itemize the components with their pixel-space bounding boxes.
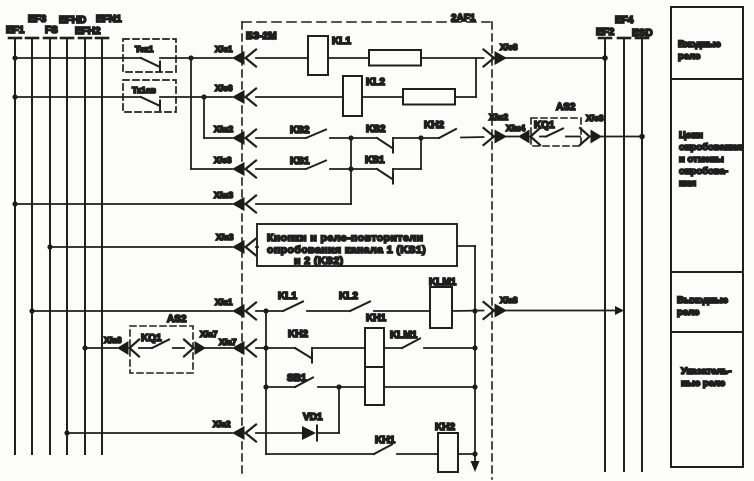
arrow continuation down bbox=[471, 454, 480, 472]
svg-text:X/с1: X/с1 bbox=[215, 44, 233, 54]
bus EF2 bbox=[596, 27, 615, 471]
svg-text:KQ1: KQ1 bbox=[534, 120, 555, 131]
wire row1 to connector bbox=[191, 57, 232, 59]
wire X/a7 to node x266 bbox=[256, 347, 295, 349]
svg-text:БЗ-2М: БЗ-2М bbox=[246, 31, 277, 42]
bus ESD bbox=[632, 28, 653, 471]
connector X/a7 (AS2 side) bbox=[184, 329, 218, 357]
contact KQ1 upper bbox=[534, 120, 580, 137]
junction EF1/row2 bbox=[12, 94, 17, 99]
junction EFHD/row10 bbox=[64, 430, 69, 435]
svg-text:ные реле: ные реле bbox=[681, 378, 725, 389]
wire to contact KS2 second bbox=[351, 137, 377, 139]
junction node x266 row7 bbox=[263, 308, 268, 313]
svg-text:KL1: KL1 bbox=[332, 36, 351, 47]
connector X/m3 bbox=[214, 190, 256, 213]
bus EF4 bbox=[615, 15, 634, 471]
svg-text:KLM1: KLM1 bbox=[429, 277, 457, 288]
wire R1 to connector X/c8 bbox=[421, 57, 484, 59]
wire row2 to connector bbox=[204, 96, 232, 98]
svg-text:X/а3: X/а3 bbox=[216, 232, 234, 242]
legend divider 2 bbox=[671, 271, 743, 273]
svg-text:KQ1: KQ1 bbox=[141, 333, 162, 344]
contact KS1 (second, with latch) bbox=[365, 155, 421, 184]
svg-text:Выходные: Выходные bbox=[677, 295, 728, 306]
wire X/c3 right to ESD bbox=[600, 136, 642, 138]
legend panel bbox=[671, 7, 743, 467]
svg-text:ния: ния bbox=[679, 178, 696, 189]
svg-text:Тск1: Тск1 bbox=[135, 44, 154, 54]
svg-text:KH2: KH2 bbox=[424, 120, 444, 131]
connector X/c8 bbox=[484, 42, 518, 67]
wire VD1 to x339 bbox=[317, 432, 339, 434]
relay coil KL2 bbox=[343, 76, 385, 116]
wire vertical x266 rows7-11 bbox=[265, 311, 267, 454]
wire X/m3 to x351 bbox=[256, 203, 351, 205]
svg-text:X/с3: X/с3 bbox=[214, 155, 232, 165]
junction node row2 x204 bbox=[201, 94, 206, 99]
diode VD1 bbox=[302, 412, 323, 441]
wire R2 to join vertical bbox=[455, 96, 476, 98]
block boundary 2AF1 dashed top bbox=[242, 13, 490, 24]
svg-text:AS2: AS2 bbox=[556, 102, 576, 113]
wire X/c6 to coil KL2 bbox=[256, 96, 343, 98]
wire block output to x475 bbox=[457, 245, 475, 247]
junction FS/row6 bbox=[47, 244, 52, 249]
contact KQ1 lower bbox=[139, 333, 184, 348]
svg-text:X/а7: X/а7 bbox=[219, 337, 237, 347]
svg-text:X/а8: X/а8 bbox=[500, 295, 518, 305]
connector X/a3 bbox=[216, 232, 256, 256]
relay coil KL1 bbox=[308, 36, 351, 75]
svg-text:VD1: VD1 bbox=[303, 412, 323, 423]
legend text output relays bbox=[677, 295, 728, 318]
legend text indicator relays bbox=[681, 366, 732, 389]
junction ESD/row3 bbox=[639, 134, 645, 140]
bus FS bbox=[44, 25, 58, 454]
wire KH2 to x475 bbox=[458, 453, 475, 455]
svg-text:опробования канала 1 (KS1): опробования канала 1 (KS1) bbox=[267, 244, 426, 256]
relay coil KLM1 bbox=[429, 277, 457, 328]
contact KL2 bbox=[339, 291, 430, 311]
junction node x421 row3 bbox=[418, 135, 423, 140]
relay coil KH1 (two sections) bbox=[365, 313, 386, 405]
svg-text:опробования: опробования bbox=[679, 142, 742, 153]
svg-text:KH1: KH1 bbox=[366, 313, 386, 324]
svg-text:X/а6: X/а6 bbox=[104, 335, 122, 345]
svg-text:KS1: KS1 bbox=[365, 155, 385, 166]
block AS2 lower (dashed box) bbox=[130, 314, 193, 373]
bus EF3 bbox=[26, 14, 47, 454]
connector X/c3 right bbox=[580, 113, 604, 145]
contact KLM1 bbox=[384, 330, 475, 348]
wire branch x339 down to diode row bbox=[338, 387, 340, 433]
svg-text:Входные: Входные bbox=[678, 39, 721, 50]
block boundary 2AF1 dashed vertical right bbox=[491, 22, 493, 479]
svg-text:KS2: KS2 bbox=[290, 125, 310, 136]
connector X/a1 bbox=[215, 297, 256, 320]
svg-text:и отмены: и отмены bbox=[679, 154, 724, 165]
svg-text:X/м3: X/м3 bbox=[214, 190, 233, 200]
connector X/c1 bbox=[215, 44, 256, 67]
svg-text:KLM1: KLM1 bbox=[390, 330, 418, 341]
connector X/m2 bbox=[214, 124, 256, 147]
svg-text:и 2 (KS2): и 2 (KS2) bbox=[294, 255, 344, 267]
junction node x351 row4 bbox=[348, 166, 353, 171]
contact SB1 bbox=[287, 373, 339, 387]
svg-text:Указатель-: Указатель- bbox=[681, 366, 732, 377]
junction EF1/row5 bbox=[12, 201, 17, 206]
svg-text:EF2: EF2 bbox=[596, 27, 615, 38]
connector X/m2 right bbox=[484, 112, 509, 145]
wire X/a7 link bbox=[204, 347, 232, 349]
svg-text:KS1: KS1 bbox=[290, 156, 310, 167]
wire row X/a1 from EF3 bbox=[32, 310, 232, 312]
wire SB1 node to coil KH1 lower bbox=[339, 386, 365, 388]
junction x475 row8 bbox=[472, 345, 477, 350]
wire row X/a6 from EFH2 bbox=[85, 347, 117, 349]
svg-text:реле: реле bbox=[678, 51, 700, 62]
svg-text:AS2: AS2 bbox=[167, 314, 187, 325]
wire branch x421 KS1 step up to KH2 node bbox=[420, 138, 422, 169]
block boundary BZ-2M dashed vertical bbox=[242, 22, 277, 473]
bus EFHD bbox=[59, 15, 86, 454]
wire row X/a3 from FS bbox=[50, 246, 232, 248]
svg-text:X/а2: X/а2 bbox=[213, 419, 231, 429]
relay coil KH2 bbox=[435, 422, 458, 472]
contact KH2 (with latch) bbox=[288, 329, 365, 363]
junction x475 row7 bbox=[472, 308, 477, 313]
junction x475 row11 bbox=[472, 451, 477, 456]
svg-text:X/м2: X/м2 bbox=[489, 112, 508, 122]
contact KH2 bbox=[421, 120, 484, 138]
wire branch x204 down to X/m2 row bbox=[203, 97, 205, 138]
connector X/a7 (BZ-2M side) bbox=[219, 337, 256, 357]
contact KL1 bbox=[278, 291, 350, 311]
connector X/m4 bbox=[506, 123, 540, 145]
svg-text:EF1: EF1 bbox=[6, 25, 25, 36]
svg-text:KL2: KL2 bbox=[339, 291, 358, 302]
svg-text:X/м4: X/м4 bbox=[506, 123, 525, 133]
svg-text:KH2: KH2 bbox=[435, 422, 455, 433]
svg-text:KL2: KL2 bbox=[366, 77, 385, 88]
svg-text:реле: реле bbox=[677, 307, 699, 318]
junction x266 row8 bbox=[263, 345, 268, 350]
contact KH1 (bottom) bbox=[374, 435, 438, 454]
wire KH1 lower to x475 bbox=[384, 386, 475, 388]
junction EF1/row1 bbox=[12, 55, 17, 60]
wire to contact KS1 second bbox=[351, 168, 377, 170]
wire to connector X/m4 bbox=[505, 136, 518, 138]
contact Tck1 (dashed box) bbox=[123, 39, 191, 72]
legend divider 1 bbox=[671, 78, 743, 80]
svg-text:опробова-: опробова- bbox=[679, 166, 728, 177]
wire X/a1 to node x266 bbox=[256, 310, 283, 312]
junction x475 row9 bbox=[472, 384, 477, 389]
block Knopki i rele-povtoriteli (KS1,KS2) bbox=[257, 224, 457, 267]
bus EF1 bbox=[6, 25, 25, 454]
wire X/c3 to contact KS1 bbox=[256, 168, 306, 170]
block AS2 upper (dashed box) bbox=[531, 102, 581, 146]
svg-text:EFHD: EFHD bbox=[59, 15, 86, 26]
svg-text:EF3: EF3 bbox=[28, 14, 47, 25]
svg-text:Цепи: Цепи bbox=[679, 130, 703, 141]
resistor R2 bbox=[403, 89, 455, 105]
wire X/m2 to contact KS2 bbox=[256, 137, 306, 139]
svg-text:X/с6: X/с6 bbox=[215, 83, 233, 93]
junction node row1 x191 bbox=[188, 55, 193, 60]
wire vertical x475 row6 to bottom bbox=[474, 246, 476, 454]
svg-text:Кнопки и реле-повторители: Кнопки и реле-повторители bbox=[267, 232, 423, 244]
wire row X/c1 from EF1 bbox=[15, 57, 141, 59]
svg-text:2AF1: 2AF1 bbox=[451, 13, 476, 24]
svg-text:X/с8: X/с8 bbox=[500, 42, 518, 52]
junction node x339 row9 bbox=[336, 384, 341, 389]
wire vertical x351 rows3-5 bbox=[350, 138, 352, 204]
svg-text:X/с3: X/с3 bbox=[586, 113, 604, 123]
wire row X/c3 from x191 branch bbox=[191, 168, 232, 170]
svg-text:KL1: KL1 bbox=[278, 291, 297, 302]
contact KS2 (second, with latch) bbox=[366, 124, 421, 153]
wire X/c8 to EF2 bbox=[505, 57, 605, 59]
junction node x351 row3 bbox=[348, 135, 353, 140]
connector X/a8 bbox=[484, 295, 518, 319]
svg-text:EF4: EF4 bbox=[615, 15, 634, 26]
connector X/a6 bbox=[104, 335, 139, 357]
wire KL1 to resistor R1 bbox=[328, 57, 369, 59]
wire X/a2 to diode bbox=[256, 432, 302, 434]
resistor R1 bbox=[369, 50, 421, 66]
connector X/a2 bbox=[213, 419, 256, 442]
svg-text:ESD: ESD bbox=[632, 28, 653, 39]
junction EF3/row7 bbox=[29, 308, 34, 313]
wire branch x191 down to X/c3 row bbox=[190, 58, 192, 169]
svg-text:EFH2: EFH2 bbox=[75, 26, 101, 37]
svg-text:EFN1: EFN1 bbox=[96, 14, 122, 25]
connector X/c3 bbox=[214, 155, 256, 178]
legend divider 3 bbox=[671, 331, 743, 333]
contact KS2 (first) bbox=[290, 125, 351, 138]
bus EFN1 bbox=[96, 14, 122, 454]
junction x266 row9 bbox=[263, 384, 268, 389]
wire X/a3 to block bbox=[256, 246, 258, 248]
bus EFH2 bbox=[75, 26, 101, 454]
connector X/c6 bbox=[215, 83, 256, 106]
svg-text:FS: FS bbox=[45, 25, 58, 36]
junction EF2/row1 bbox=[602, 55, 608, 61]
svg-text:X/м2: X/м2 bbox=[214, 124, 233, 134]
wire row X/m3 from EF1 bbox=[15, 203, 232, 205]
wire X/a8 to EF4 arrow bbox=[505, 306, 624, 315]
wire X/c1 to coil KL1 bbox=[256, 57, 308, 59]
junction EFH2/row8 bbox=[82, 345, 87, 350]
svg-text:X/а7: X/а7 bbox=[200, 329, 218, 339]
wire KLM1 to connector X/a8 bbox=[452, 310, 484, 313]
wire row X/m2 from x204 branch bbox=[204, 137, 232, 139]
legend text test circuits bbox=[679, 130, 742, 189]
wire bottom row from x266 bbox=[266, 453, 374, 455]
wire join vertical x476 row1-row2 bbox=[475, 58, 477, 97]
svg-text:KS2: KS2 bbox=[366, 124, 386, 135]
svg-text:Тк1ав: Тк1ав bbox=[132, 85, 156, 95]
wire row X/c6 from EF1 bbox=[15, 96, 141, 98]
wire row SB1 from node x266 bbox=[266, 386, 295, 388]
contact KS1 (first) bbox=[290, 156, 351, 169]
svg-text:X/а1: X/а1 bbox=[215, 297, 233, 307]
contact Tk1av (dashed box) bbox=[123, 80, 204, 112]
wire KL2 to resistor R2 bbox=[362, 96, 403, 98]
wire row X/a2 from EFHD bbox=[67, 432, 232, 434]
legend text input relays bbox=[678, 39, 721, 62]
svg-text:KH2: KH2 bbox=[288, 329, 308, 340]
